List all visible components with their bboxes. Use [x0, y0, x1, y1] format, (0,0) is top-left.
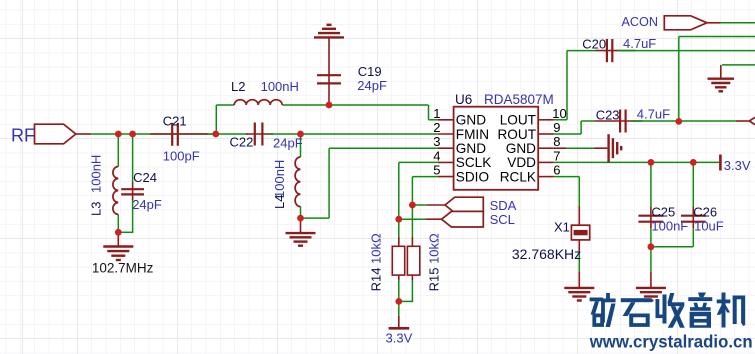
svg-text:3: 3 [433, 134, 440, 149]
wire top right to edge [679, 36, 755, 38]
svg-text:10: 10 [552, 106, 566, 121]
wire right port pin [736, 120, 749, 122]
crystal X1 [512, 219, 590, 261]
wire ACON port pin [705, 22, 721, 24]
junction node B [297, 131, 304, 138]
wire L2 to pin1 net [282, 104, 428, 106]
op-amp U6 RDA5807M body [454, 92, 554, 190]
svg-text:GND: GND [506, 141, 536, 156]
wire C19 column through plates [328, 37, 330, 105]
power 3.3V bar (right) [720, 155, 750, 173]
svg-text:VDD: VDD [507, 155, 536, 170]
port ACON [622, 15, 708, 30]
wire through C24 plates [132, 182, 134, 200]
svg-text:C21: C21 [163, 113, 187, 128]
wire through C21 [150, 133, 208, 135]
svg-text:3.3V: 3.3V [724, 158, 751, 173]
wire pin8 to ground [566, 147, 595, 149]
svg-text:FMIN: FMIN [456, 127, 489, 142]
wire LOUT riser [566, 51, 568, 120]
wire pin9 ROUT [554, 133, 581, 135]
wire ground stem GND5 [650, 272, 652, 288]
wire RF port pin [76, 133, 91, 135]
wire to C20 [567, 50, 596, 52]
wire through C26 plates [692, 207, 694, 228]
svg-text:X1: X1 [554, 219, 570, 234]
wire pin8 GND stub [554, 147, 566, 149]
wire pin5 to SDIO column [412, 176, 438, 178]
wire ground stem GND4 [578, 272, 580, 288]
inductor L3 [89, 155, 119, 216]
wire vertical crossing to C23 net [678, 37, 680, 122]
wire L4 bottom [300, 207, 302, 219]
wire X1 to ground [578, 253, 580, 272]
svg-text:RF: RF [11, 126, 35, 146]
wire 3.3V power stem [398, 316, 400, 327]
wire R14 bottom [398, 280, 400, 301]
junction VDD/C25 [648, 159, 655, 166]
wire ACON to edge [721, 22, 755, 24]
wire R14/R15 bottom rail [398, 300, 413, 302]
wire ROUT riser [580, 121, 582, 134]
port RF [11, 124, 76, 145]
junction L4 bottom [297, 215, 304, 222]
svg-text:C22: C22 [230, 134, 254, 149]
watermark chinese kuang shi shou yin ji [590, 293, 746, 328]
junction node A1 [115, 131, 122, 138]
svg-text:RDA5807M: RDA5807M [484, 92, 554, 107]
svg-text:R14 10kΩ: R14 10kΩ [369, 233, 384, 291]
wire GND6 stem [720, 65, 722, 78]
svg-text:C24: C24 [133, 170, 157, 185]
svg-text:SCL: SCL [490, 212, 515, 227]
wire C26 top [692, 162, 694, 207]
wire R14 bottom pin [398, 275, 400, 280]
wire into pin1 [429, 119, 438, 121]
U6 pin numbers right 10-6 [552, 106, 566, 178]
port SDA [445, 197, 517, 213]
capacitor C24 [121, 170, 162, 212]
ground GND4 below X1 [564, 288, 594, 301]
svg-text:2: 2 [433, 120, 440, 135]
svg-text:1: 1 [433, 106, 440, 121]
wire L4 bottom rail [301, 217, 330, 219]
svg-text:100nF: 100nF [651, 218, 688, 233]
svg-text:102.7MHz: 102.7MHz [92, 260, 154, 275]
svg-text:4.7uF: 4.7uF [623, 36, 656, 51]
wire riser to L2 [215, 105, 217, 134]
capacitor C26 [681, 205, 724, 234]
resistor R14 [369, 233, 405, 291]
wire ground stem GND1 [117, 232, 119, 246]
wire VDD 3.3V rail [554, 161, 719, 163]
svg-text:24pF: 24pF [132, 197, 162, 212]
svg-text:R15 10kΩ: R15 10kΩ [426, 233, 441, 291]
svg-text:www.crystalradio.cn: www.crystalradio.cn [589, 332, 753, 352]
resistor R15 [407, 233, 441, 291]
wire node B to L4 top [300, 134, 302, 157]
wire C24 bottom [132, 200, 134, 232]
svg-text:GND: GND [456, 113, 486, 128]
wire SCLK column down [398, 162, 400, 237]
svg-text:7: 7 [553, 148, 560, 163]
junction C25/C26 bottom [648, 243, 655, 250]
wire R15 top pin [411, 237, 413, 246]
junction C19/L2 node [326, 102, 333, 109]
wire R15 bottom pin [411, 275, 413, 280]
wire through C25 plates [650, 207, 652, 228]
wire riser to pin3 [328, 148, 330, 218]
wire R14 top pin [398, 237, 400, 246]
svg-text:ACON: ACON [622, 15, 659, 29]
svg-text:SDA: SDA [490, 198, 517, 213]
wire SDA stub [412, 204, 427, 206]
wire drop to pin1 [428, 105, 430, 120]
wire X1 bottom pin [578, 240, 580, 253]
port arrow at right edge [749, 117, 755, 124]
junction R14/R15 bottom [395, 298, 402, 305]
wire SDIO column down [411, 177, 413, 237]
svg-text:3.3V: 3.3V [386, 331, 413, 346]
wire C25 bottom [650, 228, 652, 247]
wire through C23 [595, 120, 643, 122]
ground GND2 below L4 [286, 233, 316, 246]
svg-text:24pF: 24pF [273, 136, 303, 151]
capacitor C19 [317, 64, 387, 93]
inductor L2 [231, 79, 299, 105]
svg-text:9: 9 [553, 120, 560, 135]
svg-text:100nH: 100nH [261, 79, 299, 94]
wire pin6 RCLK [554, 176, 580, 178]
wire SDA port pin [427, 204, 445, 206]
junction SDA [409, 202, 416, 209]
wire to C23 [581, 120, 594, 122]
U6 pin numbers left 1-5 [433, 106, 440, 178]
wire C26 bottom [692, 228, 694, 247]
junction node A2 [129, 131, 136, 138]
svg-text:8: 8 [553, 134, 560, 149]
svg-text:LOUT: LOUT [500, 113, 536, 128]
wire C25/C26 bottom rail [651, 246, 693, 248]
wire X1 top pin [578, 206, 580, 225]
svg-text:C20: C20 [582, 37, 606, 52]
svg-text:100nH: 100nH [89, 155, 104, 193]
U6 pin stubs 1-5 and 6-10 [438, 120, 554, 177]
svg-text:RCLK: RCLK [500, 169, 536, 184]
capacitor C25 [638, 205, 688, 234]
wire C23 to right port [631, 120, 736, 122]
wire node A to L3 top [117, 134, 119, 167]
wire ground stem GND2 [300, 218, 302, 233]
ground GND5 below C25/C26 [636, 288, 666, 301]
wire SCL stub [399, 218, 426, 220]
U6 pin names left [456, 113, 492, 185]
svg-text:5: 5 [433, 163, 440, 178]
svg-text:SDIO: SDIO [456, 169, 489, 184]
svg-text:24pF: 24pF [357, 78, 387, 93]
wire RF net horizontal [91, 133, 216, 135]
junction C23 net [675, 118, 682, 125]
wire RCLK drop to X1 [578, 177, 580, 206]
svg-text:L2: L2 [231, 79, 245, 94]
wire C21 to C22 [208, 133, 248, 135]
junction SCL [395, 216, 402, 223]
svg-text:4.7uF: 4.7uF [637, 106, 670, 121]
junction VDD/C26 [690, 159, 697, 166]
wire to 3.3V power [398, 301, 400, 316]
wire pin10 LOUT [554, 119, 567, 121]
svg-text:GND: GND [456, 141, 486, 156]
ground GND6 top right [708, 79, 735, 92]
wire into pin3 [329, 147, 438, 149]
wire L2 left lead [216, 104, 234, 106]
U6 pin names right [497, 113, 536, 185]
svg-text:4: 4 [433, 148, 440, 163]
ground GND1 under L3/C24, labelled 102.7MHz [92, 247, 154, 276]
capacitor C22 [230, 123, 303, 151]
wire through C20 [596, 50, 636, 52]
wire R15 bottom [411, 280, 413, 301]
wire to ground GND5 [650, 247, 652, 272]
wire through C22 [246, 133, 273, 135]
svg-text:ROUT: ROUT [497, 127, 536, 142]
svg-text:100pF: 100pF [163, 149, 200, 164]
wire L3 bottom [117, 215, 119, 233]
wire right edge to GND6 [722, 64, 755, 66]
wire C22 to U6 pin2 [269, 133, 438, 135]
wire pin4 to SCLK column [399, 161, 438, 163]
junction node A3 [212, 131, 219, 138]
wire into GND3 symbol [595, 147, 608, 149]
port SCL [442, 211, 515, 227]
capacitor C21 [163, 113, 200, 163]
svg-text:U6: U6 [455, 92, 472, 107]
capacitor C23 [596, 106, 670, 132]
wire L3/C24 bottom rail [118, 231, 134, 233]
ground GND3 rotated at pin 8 [609, 134, 622, 162]
wire node A to C24 top [132, 134, 134, 182]
inductor L4 [272, 157, 301, 209]
svg-text:32.768KHz: 32.768KHz [512, 246, 581, 262]
svg-text:L3: L3 [89, 202, 104, 216]
wire SCL port pin [426, 218, 442, 220]
junction L3/C24 bottom [115, 229, 122, 236]
svg-text:SCLK: SCLK [456, 155, 492, 170]
svg-text:100nH: 100nH [272, 160, 287, 198]
power 3.3V bar (bottom) [386, 328, 413, 345]
svg-text:C23: C23 [596, 107, 620, 122]
wire C20 to right edge [618, 50, 755, 52]
svg-text:6: 6 [553, 163, 560, 178]
wire C25 top [650, 162, 652, 207]
ground inverted above C19 [314, 25, 344, 38]
svg-text:10uF: 10uF [694, 218, 724, 233]
capacitor C20 [582, 36, 656, 62]
